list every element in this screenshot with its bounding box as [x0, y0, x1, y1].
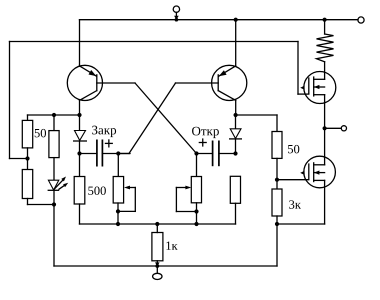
node: mid drain junction: [323, 126, 327, 130]
wire: VT1 emitter drop: [79, 20, 81, 66]
wire: gate bus drop to upper MOSFET: [298, 42, 309, 95]
node: pot500 bus junction: [116, 222, 120, 226]
node: junction at box C top: [52, 113, 56, 117]
node: cap1 left junction: [77, 151, 81, 155]
diode VD2: [229, 115, 242, 154]
wire: box B bottom to LED column: [28, 199, 55, 205]
transistor VT2: [212, 65, 247, 100]
wire: VT2 collector drop: [235, 100, 237, 115]
resistor 500 (left fixed): [74, 177, 85, 205]
node: right divider mid junction: [275, 178, 279, 182]
wire: cross-coupling diagonal from VT1 base: [135, 83, 197, 154]
wire: upper MOSFET source down: [324, 95, 326, 129]
value label 500: [88, 186, 106, 194]
value label 1к: [166, 242, 177, 250]
node: bottom terminal junction: [155, 262, 160, 268]
node: mid junction left chain: [25, 156, 29, 160]
value label 3к: [289, 200, 301, 208]
resistor C: [49, 131, 59, 158]
wire: left chain bottom to bus: [80, 204, 236, 224]
value label 50: [35, 129, 46, 137]
node: pot500 wiper junction: [116, 209, 120, 213]
terminal: top-right output: [358, 17, 364, 23]
diode VD1: [73, 115, 87, 177]
node: cap2 left junction: [194, 151, 198, 155]
resistor 50 (right): [272, 132, 282, 159]
polarity plus C1: [105, 139, 113, 147]
LED diode: [48, 177, 69, 191]
terminal: top input: [173, 6, 179, 22]
wire: left collector node line: [28, 115, 80, 131]
resistor G (under cap2 right): [230, 176, 240, 224]
wire: bottom rail: [54, 265, 277, 267]
node: cap1 right junction: [116, 151, 120, 155]
node: LED bottom junction: [52, 202, 56, 206]
node: rail junction to resistor R: [323, 18, 327, 22]
wire: 3к bottom to bus: [276, 216, 278, 224]
wire: box A to box B: [27, 148, 29, 170]
node: 1к top bus junction: [155, 222, 159, 226]
value label 50 right: [288, 145, 299, 153]
label Откр: [192, 127, 219, 138]
wire: top supply rail: [80, 19, 359, 21]
MOSFET VT3 (upper): [300, 72, 336, 104]
wire: lower MOSFET drain up: [324, 128, 326, 165]
polarity plus C2: [199, 138, 207, 146]
wire: right bus drop to bottom rail: [276, 224, 278, 266]
node: rail junction to VT2 emitter: [234, 18, 238, 22]
MOSFET VT4 (lower): [300, 156, 335, 188]
wire: right divider mid: [276, 158, 278, 189]
wire: cross-coupling diagonal from VT2 base: [118, 83, 175, 154]
node: right bus junction: [275, 222, 279, 226]
capacitor C1 (Закр): [80, 140, 131, 167]
potentiometer 500: [113, 154, 135, 225]
wire: VT2 emitter drop: [235, 20, 237, 66]
resistor 1к: [152, 224, 163, 266]
resistor 3к: [272, 189, 282, 216]
wire: gate lead to lower MOSFET: [277, 179, 309, 181]
label Закр: [92, 126, 116, 137]
resistor 50 (left): [22, 120, 32, 147]
capacitor C2 (Откр): [197, 141, 236, 167]
wire: right bus to MOSFET source: [277, 180, 325, 224]
terminal: bottom common: [153, 266, 162, 280]
wire: side terminal lead: [325, 127, 342, 129]
node: pot right wiper junction: [194, 209, 198, 213]
node: pot right bus junction: [194, 222, 198, 226]
wire: LED column down to bottom rail: [53, 190, 55, 266]
node: cap2 right junction: [233, 151, 237, 155]
wire: VT1 base lead: [97, 82, 135, 84]
wire: VT2 base lead: [176, 82, 219, 84]
wire: VT1 collector drop: [79, 100, 81, 115]
wire: collector node to right divider: [236, 115, 277, 132]
node: VT2 collector junction: [234, 113, 238, 117]
terminal: side output: [341, 126, 346, 131]
wire: box C bottom to LED: [53, 158, 55, 181]
wire: second rail (gate bus): [10, 42, 299, 159]
node: VT1 collector junction: [77, 113, 81, 117]
potentiometer right: [176, 154, 201, 225]
resistor R zigzag top right: [317, 20, 334, 80]
resistor B (left lower): [22, 170, 32, 199]
transistor VT1: [67, 65, 102, 100]
